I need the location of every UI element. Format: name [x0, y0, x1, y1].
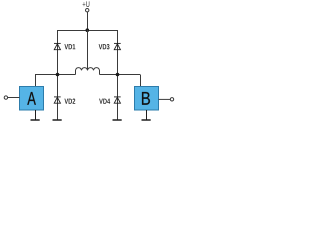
ground under A — [31, 110, 40, 120]
terminal B output — [170, 98, 173, 101]
wire mid rail right — [100, 74, 141, 76]
junction dot right mid — [116, 73, 120, 77]
wire riser to box B — [140, 75, 142, 87]
label VD2 — [64, 98, 75, 103]
diode VD1 — [54, 43, 61, 49]
wire mid rail left — [35, 74, 76, 76]
terminal +U — [86, 9, 89, 12]
label B — [142, 92, 150, 105]
diode VD2 — [54, 97, 61, 103]
wire A input — [8, 97, 20, 99]
node +U label — [83, 1, 90, 7]
ground under VD2 — [53, 119, 62, 121]
wire outer rail: left drop through VD1 VD2, top rail, right drop through VD3 VD4 — [58, 31, 118, 120]
wire B output — [159, 98, 171, 100]
label VD1 — [64, 44, 75, 49]
inductor L (center-tapped) — [76, 68, 100, 75]
block B — [135, 87, 159, 111]
label VD3 — [99, 44, 110, 49]
label VD4 — [99, 99, 110, 104]
diode VD4 — [114, 97, 121, 103]
label A — [27, 92, 36, 105]
ground under VD4 — [113, 119, 122, 121]
wire from +U terminal to top rail — [87, 12, 89, 30]
junction dot left mid — [56, 73, 60, 77]
diode VD3 — [114, 43, 121, 49]
wire center tap from top rail to inductor — [87, 30, 89, 70]
ground under B — [142, 110, 151, 120]
terminal A input — [4, 96, 7, 99]
junction dot at +U on top rail — [86, 28, 90, 32]
block A — [20, 87, 44, 111]
wire riser to box A — [35, 75, 37, 87]
